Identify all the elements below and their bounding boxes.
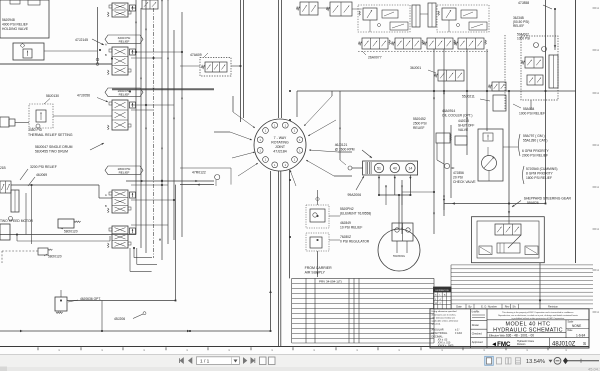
svg-text:13.54%: 13.54%: [526, 359, 545, 365]
svg-text:45.04.1: 45.04.1: [588, 366, 600, 371]
svg-text:1 / 1: 1 / 1: [200, 359, 210, 365]
